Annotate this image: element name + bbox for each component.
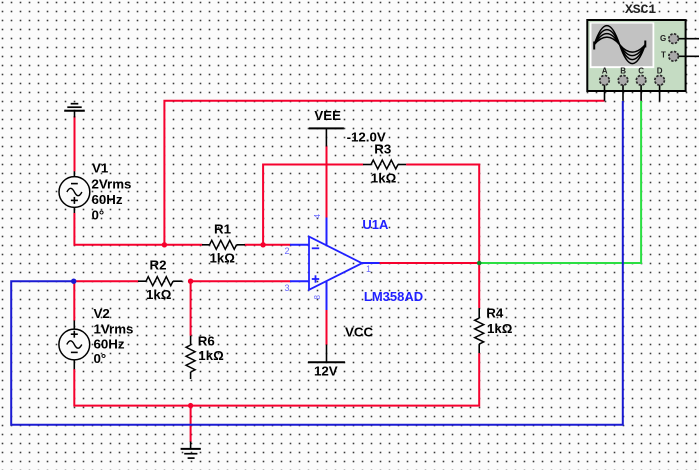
svg-text:12V: 12V [314,364,338,379]
label R3 value [371,142,397,186]
svg-text:0°: 0° [94,351,107,366]
svg-text:A: A [602,67,608,76]
svg-text:V2: V2 [94,306,110,321]
wire R1 to op-amp pin 2 (red) [245,244,291,246]
svg-text:1Vrms: 1Vrms [94,321,134,336]
svg-text:1kΩ: 1kΩ [146,287,172,302]
node D junction [71,279,76,284]
label R4 value [486,306,512,337]
wire node D to scope channel B (blue) [11,101,623,425]
node OUT junction [477,261,482,266]
AC source V1 [59,171,90,213]
resistor R6 (vertical) [186,336,195,379]
wire R3 to output node (red) [406,165,479,264]
label R6 value [198,333,224,363]
svg-text:3: 3 [285,283,290,293]
svg-text:60Hz: 60Hz [94,337,125,352]
label R2 value [146,257,172,302]
wire scope channel A to node A (red) [164,101,604,245]
svg-text:1: 1 [366,264,371,274]
wire V1 negative to node A (red) [74,213,164,245]
svg-text:1kΩ: 1kΩ [371,170,397,185]
resistor R2 [138,277,182,286]
svg-text:T: T [661,51,666,60]
label C [638,67,644,76]
label VEE [314,108,341,123]
svg-text:R4: R4 [486,306,504,321]
wire VCC rail (red) [326,309,328,345]
resistor R1 [202,240,245,249]
pin number 2 [285,246,290,256]
label V1 value text [92,160,132,222]
label R1 value [210,221,236,265]
wire VEE rail (red) [326,146,328,219]
oscilloscope terminal T [669,52,699,62]
oscilloscope screen waveform [594,26,645,64]
pin number 1 [366,264,371,274]
label A [602,67,608,76]
op-amp U1A V+ power stub (pin 8) [326,281,328,310]
node C junction [188,279,193,284]
svg-text:1kΩ: 1kΩ [198,348,224,363]
svg-text:1kΩ: 1kΩ [210,250,236,265]
pin number 3 [285,283,290,293]
wire R2 to op-amp pin 3 (red) [191,280,291,282]
oscilloscope terminal C [636,76,646,101]
svg-text:B: B [620,67,626,76]
node B junction [260,242,265,247]
svg-text:R6: R6 [198,333,215,348]
label LM358AD [364,289,423,304]
svg-text:V1: V1 [92,160,109,175]
svg-text:XSC1: XSC1 [625,2,656,17]
oscilloscope terminal D [655,76,665,102]
wire V2 negative to bottom node (red) [74,369,190,406]
pin number 4 (rotated) [313,214,322,219]
label V2 value text [94,306,134,366]
pin number 8 (rotated) [313,295,322,300]
node E junction (bottom) [188,403,193,408]
op-amp U1A triangle [309,237,362,290]
svg-text:8: 8 [313,295,322,300]
power symbol VCC [308,345,345,363]
oscilloscope XSC1 body [587,20,685,91]
svg-text:VEE: VEE [314,108,341,123]
wire op-amp output to node OUT (red) [379,262,479,264]
svg-text:2Vrms: 2Vrms [92,176,132,191]
resistor R4 (vertical) [475,308,484,353]
wire node D to V2 positive (red) [73,281,75,320]
svg-text:0°: 0° [92,208,105,223]
label T [661,51,666,60]
label -12.0V [347,129,386,144]
label G [660,34,666,43]
wire node D to R2 (red) [74,280,139,282]
wire ground to V1 positive (red) [74,116,76,172]
node A junction [162,242,167,247]
oscilloscope terminal A [600,76,610,101]
wire R4 to bottom node (red) [191,353,480,406]
svg-text:-12.0V: -12.0V [347,129,386,144]
svg-text:60Hz: 60Hz [92,192,123,207]
op-amp U1A V- power stub (pin 4) [326,218,328,246]
power symbol VEE [309,128,344,146]
wire node A to R1 (red) [164,244,202,246]
wire feedback node B to R3 (red) [263,165,363,245]
wire node OUT to R4 (red) [478,263,480,308]
svg-text:4: 4 [313,214,322,219]
svg-text:C: C [638,67,644,76]
wire node OUT to scope channel C (green) [479,101,641,263]
label D [657,67,663,76]
op-amp U1A output stub [361,262,380,264]
op-amp U1A pin 2 stub [290,244,310,246]
svg-text:R1: R1 [214,221,232,236]
svg-text:U1A: U1A [362,217,389,232]
op-amp U1A pin 3 stub [290,280,310,282]
svg-text:1kΩ: 1kΩ [487,321,513,336]
label U1A [362,217,389,232]
AC source V2 [59,320,90,369]
label 12V [314,364,338,379]
label XSC1 [625,2,656,17]
ground GND2 (bottom) [181,442,201,459]
svg-text:2: 2 [285,246,290,256]
label VCC [345,325,373,340]
oscilloscope terminal B [618,76,628,101]
svg-text:LM358AD: LM358AD [364,289,423,304]
label B [620,67,626,76]
resistor R3 [363,160,406,169]
ground GND1 (top left) [64,104,85,118]
oscilloscope terminal G [669,34,699,44]
wire bottom node to ground (red) [190,406,192,443]
wire node C to R6 (red) [190,281,192,336]
svg-text:D: D [657,67,663,76]
svg-text:R2: R2 [150,257,167,272]
svg-text:VCC: VCC [345,325,373,340]
svg-text:G: G [660,34,666,43]
